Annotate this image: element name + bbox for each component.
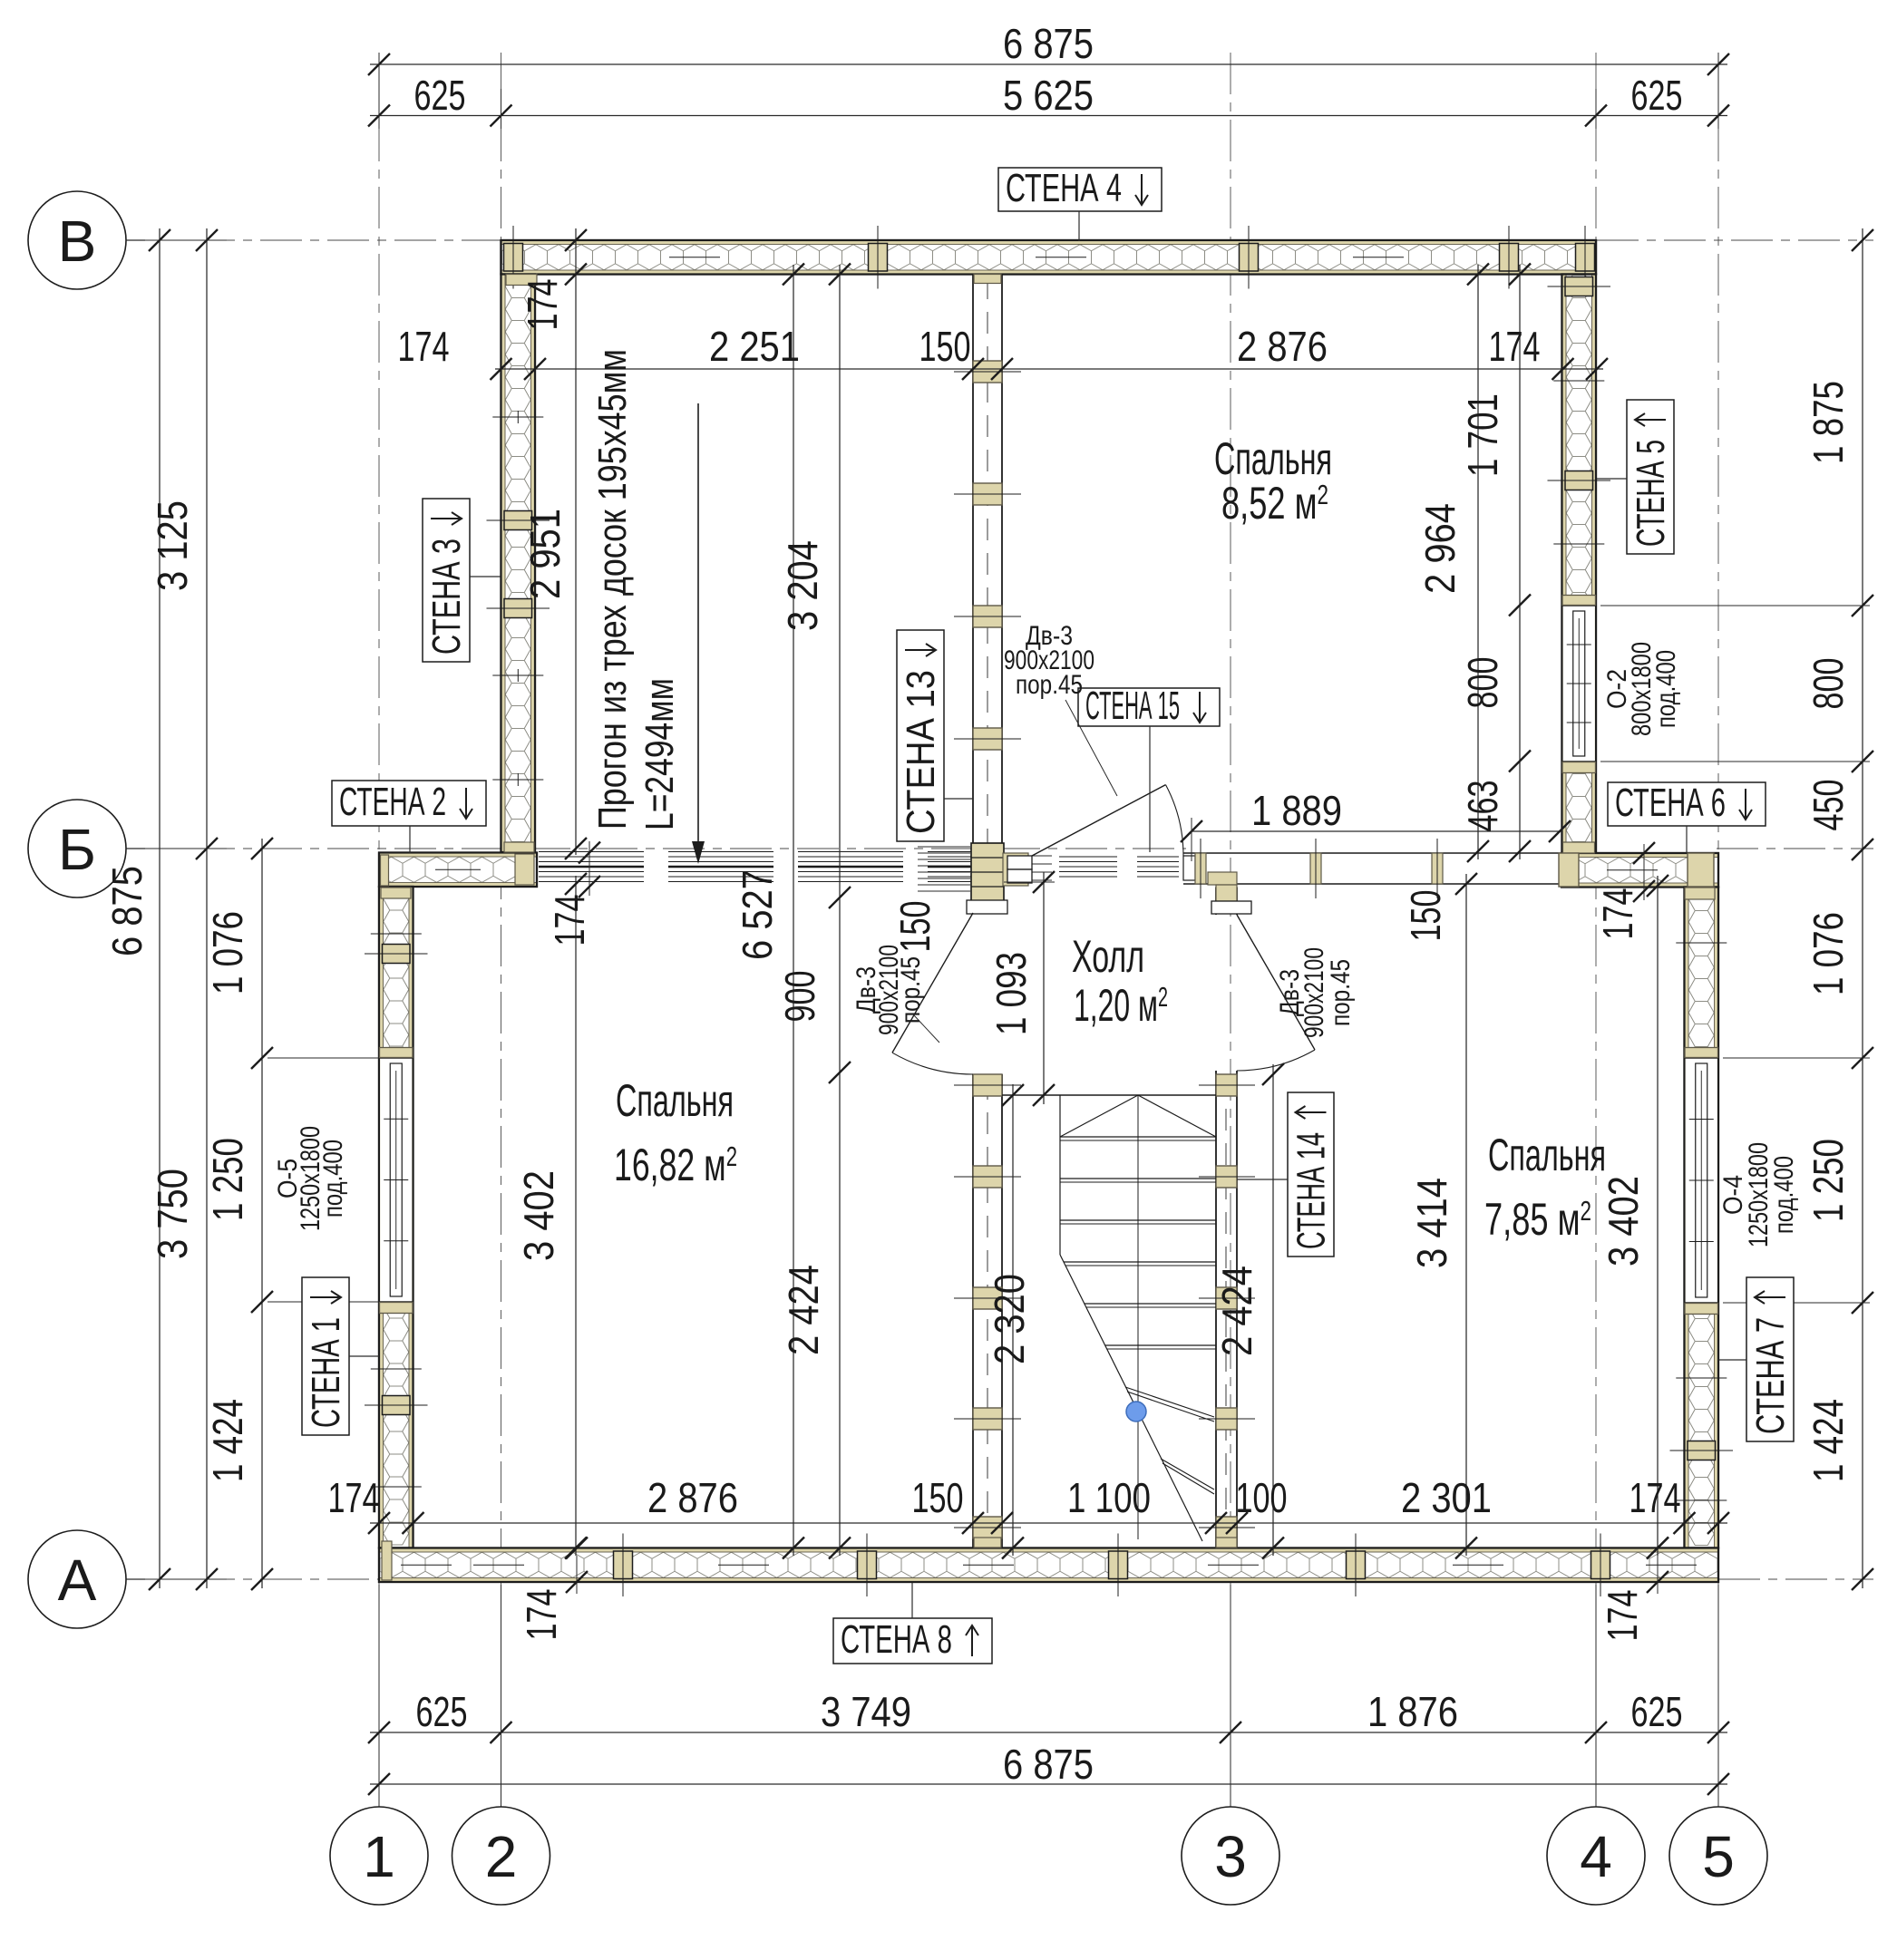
label box СТЕНА 1 with leader: [302, 1277, 349, 1435]
label box СТЕНА 8 with leader: [833, 1617, 992, 1664]
interior wall СТЕНА 13 (between bedroom 16,82 and stair/холл): [954, 274, 1021, 1548]
svg-text:2 424: 2 424: [780, 1265, 827, 1355]
svg-text:6 875: 6 875: [103, 866, 151, 956]
svg-text:174: 174: [1629, 1474, 1681, 1521]
svg-text:пор.45: пор.45: [1016, 670, 1083, 700]
svg-text:2 424: 2 424: [1213, 1266, 1260, 1356]
svg-text:450: 450: [1805, 780, 1852, 831]
junction of СТЕНА 13 with beam at axis Б: [918, 843, 1052, 914]
svg-text:8,52 м2: 8,52 м2: [1221, 478, 1328, 529]
svg-text:174: 174: [519, 279, 566, 331]
leader arrow for beam annotation: [692, 403, 705, 864]
window О-2 800x1800 in wall СТЕНА 5: [1561, 596, 1598, 773]
axis circles 1 2 3 4 5 at bottom: [330, 1807, 1767, 1905]
svg-text:А: А: [58, 1548, 97, 1613]
module joint marks on walls: [371, 257, 1727, 1566]
svg-text:463: 463: [1459, 781, 1506, 832]
label box СТЕНА 4 with leader: [998, 166, 1162, 211]
svg-text:СТЕНА 8: СТЕНА 8: [841, 1617, 952, 1662]
svg-text:1 876: 1 876: [1367, 1688, 1458, 1735]
label box СТЕНА 13 with leader: [897, 630, 944, 841]
svg-text:1 424: 1 424: [1805, 1399, 1852, 1482]
svg-text:6 875: 6 875: [1003, 20, 1094, 67]
wall СТЕНА 6 (hatched wall along axis Б right): [1561, 853, 1718, 888]
svg-text:3 204: 3 204: [779, 540, 826, 631]
studs in wall СТЕНА 1: [365, 945, 428, 1581]
wall СТЕНА 2 (jog wall at axis Б left): [379, 853, 537, 888]
svg-text:1 889: 1 889: [1251, 787, 1342, 834]
solid extension lines to axis circles: [379, 53, 1718, 1807]
wall СТЕНА 4 (top exterior wall): [501, 240, 1597, 275]
svg-text:СТЕНА 5: СТЕНА 5: [1629, 440, 1673, 547]
svg-text:174: 174: [546, 895, 593, 946]
svg-text:СТЕНА 4: СТЕНА 4: [1006, 166, 1122, 210]
interior wall СТЕНА 14 (between stair and bedroom 7,85): [1199, 888, 1255, 1548]
svg-text:2 876: 2 876: [647, 1474, 738, 1521]
svg-text:пор.45: пор.45: [1326, 959, 1356, 1026]
svg-text:2 301: 2 301: [1401, 1474, 1492, 1521]
svg-text:1,20 м2: 1,20 м2: [1074, 980, 1168, 1031]
svg-text:3 749: 3 749: [821, 1688, 911, 1735]
door Дв-3 900x2100 in wall СТЕНА 15 (into bedroom 8,52): [1032, 785, 1183, 856]
svg-text:под.400: под.400: [1651, 650, 1681, 728]
svg-text:СТЕНА 1: СТЕНА 1: [304, 1317, 348, 1428]
wall СТЕНА 5 (upper-right exterior wall): [1562, 275, 1597, 854]
svg-text:3 414: 3 414: [1408, 1178, 1455, 1268]
svg-text:150: 150: [912, 1474, 964, 1521]
svg-text:625: 625: [414, 72, 466, 119]
svg-text:Спальня: Спальня: [1488, 1130, 1606, 1180]
svg-text:6 875: 6 875: [1003, 1741, 1094, 1788]
svg-text:L=2494мм: L=2494мм: [637, 678, 682, 830]
svg-text:100: 100: [1236, 1474, 1288, 1521]
svg-text:3 750: 3 750: [149, 1169, 196, 1259]
window О-5 1250x1800 in wall СТЕНА 1: [378, 1048, 414, 1314]
svg-text:174: 174: [1594, 888, 1641, 940]
beam прогон из трех досок over opening at axis Б: [539, 852, 1179, 882]
svg-text:СТЕНА 6: СТЕНА 6: [1615, 781, 1726, 825]
wall СТЕНА 7 (lower-right exterior wall): [1685, 888, 1719, 1548]
wall СТЕНА 3 (upper-left exterior wall): [501, 275, 536, 853]
svg-text:2 320: 2 320: [986, 1274, 1033, 1364]
svg-text:150: 150: [919, 323, 971, 370]
svg-text:Спальня: Спальня: [616, 1075, 734, 1126]
svg-text:1 250: 1 250: [1805, 1139, 1852, 1222]
svg-text:174: 174: [518, 1589, 565, 1641]
svg-text:7,85 м2: 7,85 м2: [1484, 1194, 1591, 1245]
studs in wall СТЕНА 5: [1548, 277, 1611, 854]
stair with winders in stairwell: [1002, 1095, 1216, 1541]
window О-4 1250x1800 in wall СТЕНА 7: [1684, 1048, 1720, 1315]
svg-text:6 527: 6 527: [734, 869, 781, 960]
svg-text:СТЕНА 3: СТЕНА 3: [424, 539, 469, 655]
label box СТЕНА 14 with leader: [1288, 1092, 1334, 1257]
studs in wall СТЕНА 2: [381, 854, 535, 898]
svg-text:1: 1: [363, 1824, 395, 1889]
svg-text:СТЕНА 14: СТЕНА 14: [1289, 1132, 1334, 1249]
svg-text:1 701: 1 701: [1459, 393, 1506, 477]
door Дв-3 900x2100 in wall СТЕНА 14 (into bedroom 7,85): [1237, 915, 1315, 1071]
svg-text:1 076: 1 076: [204, 911, 251, 995]
svg-text:1 250: 1 250: [204, 1138, 251, 1221]
svg-text:900: 900: [776, 971, 823, 1023]
svg-text:Прогон из трех досок 195x45мм: Прогон из трех досок 195x45мм: [590, 349, 635, 830]
door jamb block in wall СТЕНА 15: [1007, 856, 1032, 883]
door Дв-3 900x2100 in wall СТЕНА 13 (into bedroom 16,82): [892, 913, 973, 1074]
svg-text:3 402: 3 402: [1600, 1176, 1647, 1266]
svg-text:СТЕНА 7: СТЕНА 7: [1748, 1317, 1793, 1434]
studs in top wall СТЕНА 4: [504, 226, 1595, 289]
studs in bottom wall СТЕНА 8: [614, 1534, 1610, 1597]
svg-text:5: 5: [1702, 1824, 1735, 1889]
studs in wall СТЕНА 7: [1670, 1441, 1734, 1460]
label box СТЕНА 2 with leader: [332, 780, 486, 826]
svg-text:1 100: 1 100: [1067, 1474, 1151, 1521]
svg-text:В: В: [58, 209, 97, 274]
svg-text:Спальня: Спальня: [1214, 433, 1332, 484]
svg-text:2 251: 2 251: [709, 323, 800, 370]
svg-text:2: 2: [485, 1824, 518, 1889]
svg-text:1 076: 1 076: [1805, 912, 1852, 995]
junction of СТЕНА 14 top at axis Б: [1208, 872, 1251, 914]
svg-text:625: 625: [416, 1688, 468, 1735]
svg-text:174: 174: [1489, 323, 1541, 370]
svg-text:800: 800: [1805, 658, 1852, 710]
svg-text:150: 150: [1402, 890, 1449, 942]
wall СТЕНА 1 (lower-left exterior wall): [379, 887, 413, 1548]
svg-text:16,82 м2: 16,82 м2: [614, 1140, 737, 1190]
label box СТЕНА 5 with leader: [1627, 400, 1674, 554]
svg-text:2 876: 2 876: [1237, 323, 1328, 370]
svg-text:3 125: 3 125: [149, 500, 196, 591]
svg-text:174: 174: [398, 323, 450, 370]
wall СТЕНА 8 (bottom exterior wall): [379, 1548, 1718, 1583]
svg-text:3: 3: [1214, 1824, 1247, 1889]
svg-text:СТЕНА 15: СТЕНА 15: [1085, 684, 1180, 728]
label box СТЕНА 6 with leader: [1608, 781, 1766, 826]
svg-text:174: 174: [328, 1474, 380, 1521]
svg-text:Холл: Холл: [1072, 931, 1144, 982]
wall СТЕНА 15 (thin wall along axis Б under bedroom 8,52): [1183, 853, 1561, 884]
svg-text:2 951: 2 951: [521, 509, 569, 599]
svg-text:5 625: 5 625: [1003, 72, 1094, 119]
svg-text:150: 150: [891, 901, 939, 953]
svg-text:3 402: 3 402: [515, 1170, 562, 1261]
svg-text:800: 800: [1459, 657, 1506, 709]
studs in wall СТЕНА 15 / СТЕНА 6: [1195, 839, 1715, 899]
svg-text:2 964: 2 964: [1416, 503, 1464, 594]
svg-text:174: 174: [1599, 1590, 1646, 1642]
svg-text:1 875: 1 875: [1805, 381, 1852, 464]
svg-text:под.400: под.400: [1769, 1156, 1799, 1234]
svg-text:под.400: под.400: [318, 1140, 348, 1218]
svg-text:625: 625: [1631, 1688, 1683, 1735]
blue node marker on stair: [1126, 1402, 1146, 1421]
svg-text:СТЕНА 2: СТЕНА 2: [339, 780, 446, 824]
svg-text:4: 4: [1580, 1824, 1612, 1889]
studs in wall СТЕНА 3: [487, 511, 550, 853]
svg-text:пор.45: пор.45: [896, 956, 926, 1024]
svg-text:1 093: 1 093: [987, 952, 1035, 1035]
svg-text:625: 625: [1631, 72, 1683, 119]
svg-text:1 424: 1 424: [204, 1399, 251, 1482]
svg-text:Б: Б: [58, 817, 96, 882]
label box СТЕНА 7 with leader: [1746, 1277, 1794, 1441]
label box СТЕНА 3 with leader: [423, 499, 470, 662]
svg-text:СТЕНА 13: СТЕНА 13: [899, 670, 943, 834]
label box СТЕНА 15 with leader: [1078, 684, 1220, 728]
axis circles В Б А on left: [28, 191, 145, 1628]
